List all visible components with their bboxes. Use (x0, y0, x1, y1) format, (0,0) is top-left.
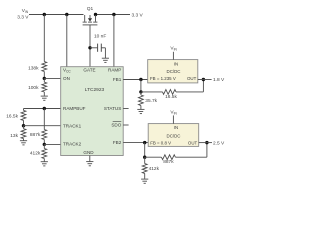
svg-text:DC/DC: DC/DC (167, 133, 181, 138)
svg-text:3.3 V: 3.3 V (132, 12, 144, 18)
svg-text:RAMPBUF: RAMPBUF (63, 106, 86, 111)
svg-text:FB = 1.235 V: FB = 1.235 V (150, 76, 176, 81)
svg-text:IN: IN (174, 62, 178, 67)
svg-text:FB2: FB2 (113, 140, 122, 145)
svg-text:13k: 13k (10, 133, 18, 139)
svg-text:887k: 887k (163, 159, 174, 165)
svg-text:IN: IN (174, 125, 178, 130)
svg-text:412k: 412k (149, 166, 160, 172)
svg-text:412k: 412k (30, 151, 41, 157)
svg-text:STATUS: STATUS (104, 106, 121, 111)
svg-text:887k: 887k (30, 132, 41, 138)
svg-text:OUT: OUT (187, 76, 197, 81)
svg-text:RAMP: RAMP (108, 68, 121, 73)
svg-text:VCC: VCC (63, 68, 71, 74)
svg-text:DC/DC: DC/DC (167, 69, 181, 74)
svg-text:1.8 V: 1.8 V (213, 77, 225, 83)
svg-text:100k: 100k (28, 85, 39, 91)
svg-text:SDO: SDO (111, 123, 121, 128)
svg-text:FB1: FB1 (113, 77, 122, 82)
svg-text:FB = 0.8 V: FB = 0.8 V (150, 140, 171, 145)
svg-text:10 nF: 10 nF (94, 34, 106, 40)
svg-text:138k: 138k (28, 65, 39, 71)
svg-text:3.3 V: 3.3 V (17, 14, 29, 20)
svg-text:LTC2923: LTC2923 (85, 87, 105, 93)
svg-text:Q1: Q1 (87, 6, 94, 12)
svg-text:TRACK1: TRACK1 (63, 123, 82, 128)
svg-text:16.5k: 16.5k (6, 113, 18, 119)
svg-text:2.5 V: 2.5 V (213, 140, 225, 146)
svg-text:TRACK2: TRACK2 (63, 142, 82, 147)
svg-text:GND: GND (83, 150, 94, 155)
svg-text:16.5k: 16.5k (165, 94, 177, 100)
svg-text:ON: ON (63, 76, 70, 81)
svg-text:35.7k: 35.7k (145, 98, 157, 104)
svg-text:OUT: OUT (188, 140, 198, 145)
svg-text:GATE: GATE (83, 68, 95, 73)
